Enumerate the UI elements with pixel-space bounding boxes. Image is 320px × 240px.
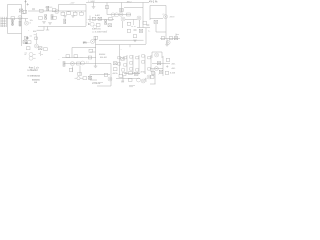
node plus marks [24, 0, 29, 5]
transistor Q10 [90, 22, 94, 26]
ground G4 [71, 16, 75, 18]
svg-text:- -: - - [87, 22, 89, 24]
resistor R64 [119, 74, 123, 77]
jack J5 [77, 77, 80, 80]
resistor R73 [83, 77, 87, 80]
resistor R69 [129, 72, 133, 75]
wire right row y38.5 [160, 38, 180, 40]
wire x153 down [152, 69, 154, 76]
resistor R7 [53, 16, 57, 19]
ground G6 [133, 40, 137, 42]
resistor R15 [120, 9, 124, 12]
resistor R35 [74, 55, 78, 58]
resistor R56 [148, 68, 151, 70]
wire dense v x139 [138, 55, 140, 74]
wire jack stems [75, 77, 84, 79]
jack J3 [29, 56, 33, 60]
wire input row y18.5 [7, 18, 29, 20]
wire left tall vertical [7, 5, 9, 34]
wire x95.5 connect [95, 37, 97, 48]
resistor R48 [148, 57, 151, 59]
svg-text:2N39: 2N39 [170, 16, 176, 18]
resistor R68 [150, 75, 154, 78]
wire x40.5 vert [39, 51, 43, 56]
svg-text:c: c [59, 59, 60, 61]
wire x123 down [122, 76, 124, 82]
wire stub x47.5 [46, 27, 49, 31]
resistor R33 [44, 48, 48, 51]
wire dense row y73.5 [124, 73, 140, 75]
ground G1 [42, 22, 46, 24]
node dash right [176, 33, 179, 35]
wire stub gnd x93.5 [93, 3, 95, 7]
transistor Q9 [137, 16, 141, 20]
pot VR2 [113, 62, 117, 65]
wire horizontal y33 [8, 33, 22, 35]
wire signal line B y44.6 [96, 44, 147, 46]
resistor R38 [63, 62, 65, 67]
wire q9 drop [139, 20, 141, 28]
node plus x167 [166, 65, 168, 67]
resistor R24 [139, 29, 143, 32]
transistor Q3 [55, 10, 59, 14]
wire pot drop [122, 21, 124, 28]
wire row y63.5 mid [64, 63, 111, 65]
wire right block v x163 [162, 56, 164, 76]
transistor Q6 [119, 12, 123, 16]
wire dense v x133 [132, 55, 134, 74]
svg-text:A MA: A MA [170, 72, 176, 75]
resistor R27 [169, 37, 173, 40]
resistor R1 [11, 17, 15, 20]
resistor R4 [47, 6, 49, 11]
svg-text:A AM-MA: A AM-MA [92, 27, 101, 30]
wire bottom row y78.5 [116, 78, 140, 80]
ground G8 [94, 66, 98, 68]
wire vertical x121.5 [121, 3, 123, 13]
resistor R50 [124, 64, 127, 66]
wire vca rect top [72, 47, 96, 49]
resistor R37 [89, 49, 93, 52]
capacitor C3 [32, 9, 35, 10]
wire stub R2 [12, 19, 14, 27]
resistor R42 [113, 68, 117, 71]
resistor R9 [67, 12, 71, 15]
svg-text:AM AM: AM AM [100, 56, 107, 59]
resistor R66 [134, 72, 138, 75]
wire y18.5 right [150, 18, 163, 20]
svg-text:AMAM: AMAM [99, 53, 106, 56]
svg-text:- -: - - [87, 18, 89, 20]
resistor R14 [127, 13, 131, 16]
capacitor C6 [146, 25, 149, 26]
resistor R11 [80, 12, 84, 15]
wire vertical x21.5 [21, 5, 23, 47]
resistor R70 [94, 36, 98, 39]
wire module rect right [165, 6, 167, 20]
svg-text:4Y-1 %: 4Y-1 % [149, 0, 158, 4]
svg-text:AM-: AM- [33, 30, 37, 33]
node dashes x131 [131, 26, 135, 28]
resistor R25 [133, 35, 137, 38]
wire signal line A y40.2 [99, 39, 144, 41]
wire vertical x86 [85, 5, 87, 27]
wire x155 bottom right [154, 72, 156, 84]
jack J4 [155, 53, 159, 57]
wire row y57.5 [62, 57, 96, 59]
capacitor C4 [52, 9, 56, 12]
node dashes x24 [24, 53, 27, 54]
resistor R63 [104, 73, 108, 76]
node marks pm [145, 78, 147, 81]
wire y7.5 segment [124, 7, 143, 9]
resistor R54 [130, 68, 133, 70]
wire top-left loop top [8, 4, 22, 6]
wire x90 down [89, 75, 91, 81]
resistor R47 [142, 55, 145, 57]
wire dense v x127 [126, 55, 128, 74]
resistor R22 [108, 24, 112, 27]
wire mid-right rect right [145, 28, 147, 44]
resistor R40 [69, 68, 73, 71]
resistor R30 [27, 41, 31, 44]
wire x58.5 connect [58, 5, 60, 12]
resistor R58 [166, 58, 170, 61]
wire stub x130 [129, 45, 131, 48]
wire right row y63.5 [152, 63, 170, 65]
wire x166 vert [165, 19, 167, 39]
wire dense v x145 [144, 55, 146, 74]
resistor R72 [35, 37, 38, 39]
wire top long bus y2.5 [86, 2, 149, 4]
resistor R62 [88, 76, 92, 79]
transistor Q18 [147, 75, 151, 79]
wire x90 vert [89, 16, 91, 23]
resistor R55 [136, 69, 139, 71]
resistor R8 [61, 12, 65, 15]
wire x95.5 down [95, 48, 97, 64]
wire module rect left [149, 6, 151, 21]
transistor Q15 [154, 67, 158, 71]
resistor R41 [78, 72, 82, 75]
svg-text:1N4148: 1N4148 [45, 7, 53, 9]
ground G5 [92, 7, 96, 9]
transistor Q16 [108, 77, 112, 81]
resistor R29 [23, 40, 27, 43]
capacitor C9 [121, 81, 124, 82]
wire row y19.5 [88, 19, 114, 21]
capacitor C8 [24, 36, 28, 39]
node marks bottom [129, 86, 135, 87]
diode D1 [40, 9, 44, 12]
resistor R45 [130, 56, 133, 58]
svg-text:ru Madrid: ru Madrid [27, 69, 38, 72]
pot VR1 [121, 17, 125, 21]
wire stub x20 [19, 19, 21, 28]
resistor R49 [118, 63, 121, 65]
resistor R59 [151, 71, 155, 74]
node dot x88 [88, 23, 90, 26]
ground G3 [63, 16, 67, 18]
wire x80 down [79, 66, 81, 75]
wire bus row y26.5 left [38, 26, 60, 28]
wire y80 seg [90, 79, 97, 81]
resistor R23 [127, 29, 131, 32]
resistor R26 [161, 37, 165, 40]
wire x133.5 stub [133, 20, 135, 26]
resistor R51 [130, 62, 133, 64]
resistor R46 [136, 57, 139, 59]
ground G7 [165, 44, 169, 46]
resistor R71 [105, 20, 107, 25]
resistor R2 [12, 21, 14, 26]
wire x36.5 vert [36, 33, 38, 44]
wire connect x21-x25 [22, 13, 26, 15]
svg-text:AMAMA: AMAMA [32, 78, 40, 81]
svg-text:AM-: AM- [172, 67, 176, 70]
resistor R39 [77, 62, 81, 65]
resistor R6 [45, 15, 47, 20]
capacitor C1 [19, 9, 23, 12]
transistor Q1 [18, 16, 22, 20]
pot VR3 [121, 57, 125, 60]
resistor R60 [159, 70, 163, 73]
wire vertical x25.5 top [25, 0, 27, 14]
connector J1 bars [0, 17, 6, 27]
svg-text:1. 4AM: 1. 4AM [88, 0, 95, 3]
wire top bus y11 [28, 10, 86, 12]
svg-text:A AM: A AM [95, 14, 100, 17]
resistor R3 [19, 21, 21, 26]
resistor R28 [174, 37, 178, 40]
wire bus stubs [63, 11, 81, 12]
wire stub x44 low [37, 27, 45, 31]
resistor R32 [38, 47, 42, 50]
node faint circle x95 [93, 25, 97, 29]
wire dense v x151 [150, 55, 152, 72]
wire y84 seg [150, 83, 156, 85]
wire stub gnd x95.5 [95, 64, 97, 67]
transistor Q5 [115, 13, 119, 17]
wire vertical x143 [142, 3, 144, 28]
resistor R43 [118, 57, 121, 59]
node dash row2 [93, 82, 104, 84]
wire x72.5 down [72, 67, 74, 73]
wire x167 down [166, 39, 168, 45]
wire vertical x107 [106, 3, 108, 15]
wire out rect small [152, 52, 162, 58]
transistor Q2 [25, 21, 29, 25]
transistor Q13 [34, 44, 38, 48]
transistor Q12 [166, 40, 170, 44]
op-amp U1 [70, 62, 74, 66]
svg-text:M MAMAMA: M MAMAMA [28, 74, 41, 77]
wire vca rect left [71, 48, 73, 58]
transistor Q17 [141, 79, 145, 83]
ground G2 [48, 23, 52, 25]
wire row y14.5 [107, 14, 131, 16]
wire stub x25.5 [25, 19, 27, 22]
wire long vertical x119.5 [119, 45, 121, 75]
node plus dashes [30, 35, 36, 36]
resistor R5 [39, 16, 43, 19]
wire module rect top [150, 5, 166, 7]
resistor R52 [142, 61, 145, 63]
resistor R36 [88, 56, 92, 59]
transistor Q7 [164, 15, 168, 19]
svg-text:AM A: AM A [113, 72, 119, 75]
resistor R57 [157, 62, 161, 65]
resistor R65 [122, 72, 126, 75]
resistor R10 [73, 12, 77, 15]
svg-text:AM-: AM- [172, 62, 176, 65]
resistor R20 [109, 17, 113, 20]
wire y32 seg [156, 31, 166, 33]
svg-text:- - -: - - - [80, 57, 84, 59]
resistor R17 [143, 21, 147, 24]
transistor Q14 [81, 61, 85, 65]
wire right row y68.5 [150, 68, 163, 70]
resistor R16 [127, 22, 131, 25]
wire upper line y4.5 [59, 4, 87, 6]
svg-text:A-MAMA: A-MAMA [92, 82, 101, 85]
resistor R61 [165, 71, 169, 74]
node plus x95 [94, 39, 96, 41]
resistor R53 [122, 69, 125, 71]
node dark marks [26, 37, 29, 40]
svg-text:AB12: AB12 [127, 1, 133, 4]
wire x176 stub [175, 34, 177, 37]
resistor R31 [26, 47, 30, 50]
resistor R19 [98, 17, 102, 20]
capacitor C7 [134, 30, 137, 31]
wire vertical x111 [110, 64, 112, 87]
wire bottom row y74.5 [90, 74, 110, 76]
wire mid horizontal y26.5 [60, 26, 86, 28]
resistor R44 [124, 57, 127, 59]
transistor Q4 [111, 13, 115, 17]
resistor R13 [105, 6, 109, 9]
capacitor C2 [23, 10, 27, 13]
node dash x92 [92, 31, 94, 33]
svg-text:+12V: +12V [70, 2, 76, 4]
resistor R67 [128, 78, 132, 81]
wire y52 tick [90, 51, 96, 53]
wire y27.5 segment [137, 27, 150, 29]
wire x156 vert [155, 24, 157, 32]
capacitor C5 [51, 15, 53, 20]
resistor R21 [96, 23, 100, 26]
JFET Q8 [154, 20, 158, 23]
resistor R12 [64, 19, 66, 24]
resistor R18 [92, 17, 96, 20]
resistor R34 [66, 55, 70, 58]
wire y19.5 link [125, 19, 137, 21]
transistor Q11 [91, 40, 95, 44]
wire y86 seg [97, 85, 111, 87]
jack J2 [29, 52, 33, 56]
speaker SP1 [137, 78, 141, 82]
